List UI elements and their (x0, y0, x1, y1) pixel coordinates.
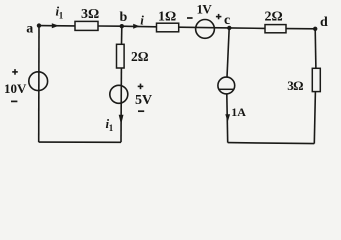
node d dot (313, 27, 317, 31)
wire a to R1 (top left segment) (39, 25, 75, 27)
svg-text:2Ω: 2Ω (131, 49, 149, 64)
resistor 3ohm right vertical (312, 68, 320, 91)
svg-text:2Ω: 2Ω (265, 10, 283, 25)
wire right branch node d to R5 (314, 29, 317, 69)
label plus of 10V (12, 69, 18, 75)
arrow current i1 on top-left wire (52, 23, 59, 28)
wire bottom right horizontal (228, 143, 315, 144)
voltage source 5V (circle on middle branch) (110, 85, 128, 103)
svg-text:1: 1 (109, 123, 114, 133)
wire node c to R3 (229, 27, 265, 30)
node b dot (120, 24, 124, 28)
wire R5 down to bottom right (314, 92, 315, 144)
wire node c down to 1A source top (227, 28, 229, 77)
svg-text:c: c (224, 13, 230, 28)
wire bottom left horizontal (39, 141, 121, 143)
wire R2 to node c (passes through 1V source) (179, 26, 230, 29)
wire R3 to node d (286, 28, 315, 30)
arrow i1 on middle branch pointing down (119, 115, 124, 125)
svg-text:b: b (120, 10, 128, 25)
label minus of 5V (138, 110, 144, 112)
label minus of 10V (11, 100, 17, 102)
wire 1A source bottom down to bottom wire (226, 94, 229, 143)
svg-text:d: d (320, 15, 328, 30)
resistor 3ohm top-left (75, 21, 98, 30)
resistor 2ohm middle vertical (117, 44, 125, 68)
svg-text:3Ω: 3Ω (81, 7, 99, 22)
svg-text:1V: 1V (197, 1, 213, 16)
wire node b to R2 (122, 25, 157, 28)
current source 1A (circle with chord on right-middle branch) (218, 77, 235, 94)
arrow current i after node b (133, 24, 139, 29)
svg-text:3Ω: 3Ω (287, 78, 303, 93)
node a dot (37, 23, 41, 27)
wire left branch vertical (node a down) (38, 26, 40, 143)
label plus of 5V (138, 84, 144, 90)
node c dot (227, 26, 231, 30)
resistor 1ohm top-middle (157, 23, 179, 32)
wire R4 down through 5V source to bottom (120, 68, 122, 142)
label minus of 1V (187, 17, 193, 19)
arrow of 1A source pointing down (225, 114, 230, 122)
wire R1 to node b (98, 25, 122, 27)
svg-text:i: i (140, 13, 144, 28)
svg-text:5V: 5V (135, 93, 152, 108)
svg-text:1A: 1A (231, 105, 246, 119)
wire node b down to R4 (121, 26, 123, 44)
voltage source 10V (circle on left branch) (29, 72, 48, 91)
svg-text:1Ω: 1Ω (158, 10, 176, 25)
svg-text:a: a (26, 21, 33, 36)
voltage source 1V (circle on top wire) (196, 20, 215, 39)
svg-text:1: 1 (59, 10, 64, 20)
svg-text:10V: 10V (4, 81, 27, 96)
label plus of 1V (216, 14, 222, 19)
resistor 2ohm top-right (265, 25, 286, 33)
